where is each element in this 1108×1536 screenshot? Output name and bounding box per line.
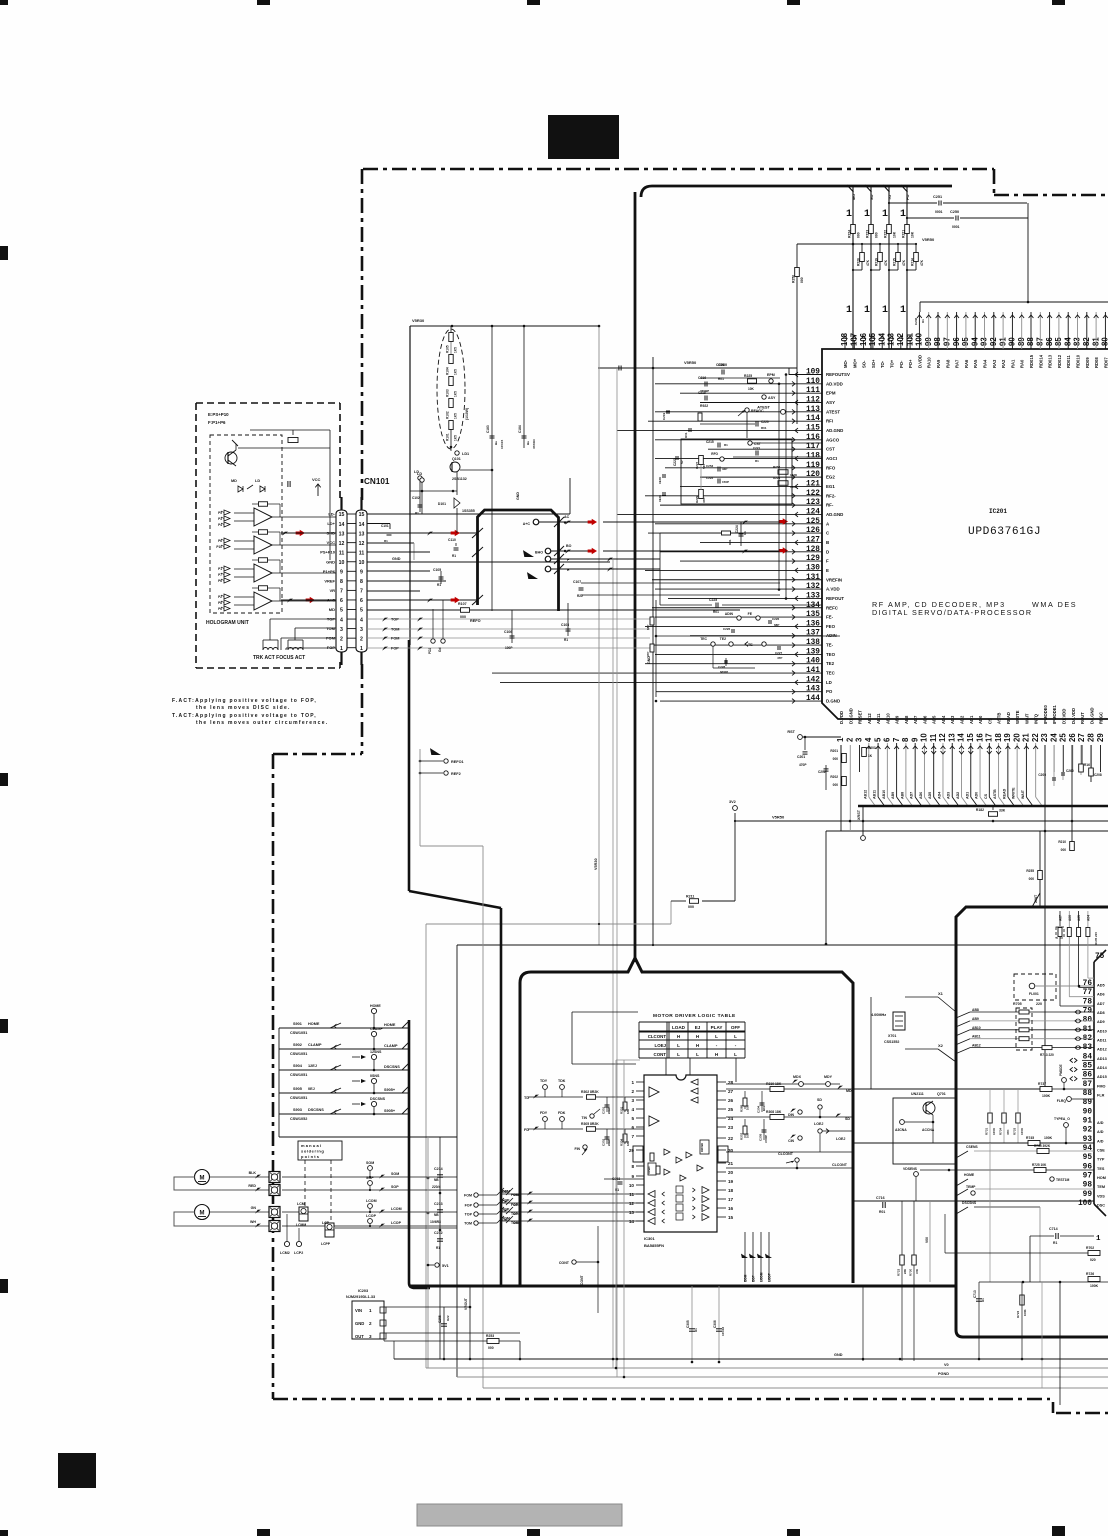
svg-text:LOAD: LOAD [672,1025,686,1030]
svg-text:the lens moves DISC side.: the lens moves DISC side. [196,705,291,711]
svg-text:R214: R214 [911,258,915,266]
svg-text:CONT: CONT [580,1274,584,1285]
svg-text:100/15: 100/15 [500,439,504,449]
svg-text:Bu: Bu [494,441,498,445]
svg-text:FL001: FL001 [1029,992,1039,996]
svg-text:13: 13 [359,531,365,537]
svg-text:9: 9 [631,1174,634,1179]
svg-text:R105 220: R105 220 [1094,932,1098,945]
svg-text:4700P: 4700P [764,1135,768,1143]
svg-text:141: 141 [806,667,820,675]
svg-text:AD.VDD: AD.VDD [826,381,843,386]
svg-text:C201: C201 [797,755,805,759]
svg-text:CSENS: CSENS [966,1145,978,1149]
svg-text:R203: R203 [868,746,876,750]
svg-text:A/D: A/D [1097,1121,1104,1125]
svg-text:AB12: AB12 [867,713,872,724]
svg-text:C716: C716 [876,1196,885,1200]
svg-text:X2: X2 [938,1043,944,1048]
svg-text:18K: 18K [626,1109,630,1114]
svg-text:10/6R3: 10/6R3 [430,1220,441,1224]
svg-text:21: 21 [728,1161,734,1166]
svg-text:1: 1 [882,305,888,316]
svg-text:D.VDD: D.VDD [839,711,844,724]
svg-text:A/D: A/D [1097,1130,1104,1134]
svg-text:TO+: TO+ [890,359,895,368]
svg-text:100K: 100K [992,1127,996,1135]
svg-text:WAIT: WAIT [1024,713,1029,724]
svg-text:78: 78 [1083,998,1093,1006]
svg-text:RD015: RD015 [1029,354,1034,368]
svg-text:CLCONT: CLCONT [832,1163,848,1167]
svg-text:RA1: RA1 [1010,359,1015,368]
svg-text:10K: 10K [746,1133,750,1138]
svg-text:LCOP: LCOP [391,1221,402,1225]
svg-text:AD4: AD4 [937,792,941,799]
svg-text:4: 4 [631,1107,634,1112]
svg-text:25: 25 [728,1107,734,1112]
svg-text:47K: 47K [884,259,888,266]
svg-text:R302 8R2K: R302 8R2K [581,1090,599,1094]
svg-text:PO: PO [826,689,833,694]
svg-text:RF-: RF- [826,503,834,508]
svg-text:AD6: AD6 [922,715,927,724]
svg-text:EOM: EOM [744,1274,748,1282]
svg-text:R255: R255 [1026,869,1034,873]
svg-text:ASY: ASY [768,396,776,400]
svg-text:MDX: MDX [793,1075,802,1079]
svg-text:AD7: AD7 [910,792,914,799]
svg-text:EG1: EG1 [826,484,835,489]
svg-text:5V1: 5V1 [442,1264,449,1268]
svg-text:HOME: HOME [384,1023,396,1027]
svg-text:READ: READ [1006,712,1011,724]
svg-text:points: points [301,1154,320,1159]
svg-text:127: 127 [806,536,820,544]
svg-text:FOP: FOP [502,1199,510,1203]
svg-text:C222: C222 [706,476,714,480]
svg-text:GN: GN [251,1206,257,1210]
svg-text:CLAMP: CLAMP [370,1027,383,1031]
svg-text:RFO: RFO [711,452,718,456]
svg-text:C260: C260 [1066,769,1074,773]
svg-text:FOP: FOP [391,647,399,651]
svg-text:119: 119 [806,462,820,470]
svg-text:TE2: TE2 [720,637,726,641]
svg-text:000: 000 [688,905,694,909]
svg-text:47P: 47P [777,656,782,660]
svg-text:GND: GND [834,1353,843,1357]
svg-text:TE-: TE- [826,643,834,648]
svg-text:R1: R1 [1053,1241,1057,1245]
svg-text:OFF: OFF [731,1025,740,1030]
svg-text:100K: 100K [1090,1284,1099,1288]
svg-text:7: 7 [340,589,343,595]
svg-text:130: 130 [806,564,820,572]
svg-text:LCOP: LCOP [366,1214,377,1218]
svg-text:LCOM: LCOM [391,1207,402,1211]
svg-text:87: 87 [1083,1081,1093,1089]
svg-text:OPEN: OPEN [647,1167,651,1174]
svg-text:F:P1+P6: F:P1+P6 [208,420,226,425]
svg-text:8: 8 [901,737,910,742]
svg-text:R202: R202 [830,775,838,779]
svg-text:MD: MD [231,479,237,483]
svg-text:AB11: AB11 [873,790,877,799]
svg-text:SO+: SO+ [871,359,876,368]
svg-text:23: 23 [728,1125,734,1130]
svg-text:HOME: HOME [370,1004,381,1008]
svg-text:R734: R734 [999,1127,1003,1135]
svg-text:V5R30: V5R30 [412,318,425,323]
svg-text:12EJ: 12EJ [308,1064,317,1068]
svg-text:GND: GND [516,492,520,500]
svg-text:CSE: CSE [1097,1149,1105,1153]
svg-text:E:PS+P10: E:PS+P10 [208,412,229,417]
svg-text:EOP: EOP [752,1274,756,1282]
svg-text:V5R50: V5R50 [922,237,935,242]
svg-text:R705: R705 [1013,1002,1022,1006]
svg-text:000: 000 [800,277,804,283]
svg-text:116: 116 [806,434,820,442]
svg-text:R308 18K: R308 18K [766,1110,782,1114]
svg-text:134: 134 [806,602,820,610]
svg-text:19: 19 [1003,733,1012,742]
svg-text:AC: AC [564,515,570,519]
svg-text:AD7: AD7 [1097,1002,1105,1006]
svg-text:2: 2 [369,1321,372,1326]
svg-text:AB12: AB12 [863,790,867,799]
svg-text:SOP: SOP [391,1185,399,1189]
svg-text:V5R30: V5R30 [594,858,598,870]
svg-text:ATEST: ATEST [826,409,840,414]
svg-text:A05: A05 [1077,915,1081,921]
svg-text:DA.VDD: DA.VDD [1071,708,1076,724]
svg-text:CSW1052: CSW1052 [290,1117,307,1121]
svg-text:A3CNA: A3CNA [895,1128,907,1132]
svg-text:B: B [826,540,829,545]
svg-text:R103: R103 [446,389,450,397]
svg-text:10K: 10K [748,387,755,391]
svg-text:C215: C215 [706,440,714,444]
svg-text:GND: GND [326,559,335,564]
svg-text:IC201: IC201 [989,508,1007,515]
svg-text:VCC: VCC [312,477,321,482]
svg-text:CSS1552: CSS1552 [884,1040,899,1044]
svg-text:1: 1 [1096,1235,1101,1243]
svg-text:C202: C202 [818,770,826,774]
svg-text:R16: R16 [1084,763,1090,767]
svg-text:1: 1 [340,646,343,652]
svg-text:15: 15 [728,1215,734,1220]
svg-text:26: 26 [728,1098,734,1103]
svg-text:TDY: TDY [540,1079,548,1083]
svg-text:WRITE: WRITE [1015,710,1020,724]
svg-text:T.ACT:Applying positive voltag: T.ACT:Applying positive voltage to TOP, [172,713,317,719]
svg-text:GND: GND [392,557,401,561]
svg-text:C306: C306 [713,1320,717,1328]
svg-text:C213: C213 [434,1202,443,1206]
svg-text:AB8: AB8 [900,792,904,799]
svg-text:14: 14 [359,522,365,528]
svg-text:R730: R730 [909,1268,913,1276]
svg-text:124: 124 [806,508,820,516]
svg-text:PD2: PD2 [428,648,432,654]
svg-text:R104: R104 [446,367,450,375]
svg-text:R1: R1 [564,638,568,642]
svg-text:UN2111: UN2111 [911,1092,924,1096]
svg-text:47K: 47K [915,1269,919,1274]
svg-text:CSW1051: CSW1051 [290,1073,307,1077]
svg-text:120: 120 [806,471,820,479]
svg-text:RA8: RA8 [945,359,950,368]
svg-text:BHO: BHO [535,551,543,555]
svg-text:S901: S901 [293,1022,302,1026]
svg-text:FE-: FE- [826,615,834,620]
svg-text:15: 15 [339,512,345,518]
svg-text:192K: 192K [658,494,662,502]
svg-text:C221: C221 [753,446,761,450]
svg-text:V5R50: V5R50 [772,815,785,820]
svg-text:182K: 182K [790,473,798,477]
svg-text:TRK ACT FOCUS ACT: TRK ACT FOCUS ACT [253,655,305,661]
svg-text:000: 000 [875,232,879,238]
svg-text:AB9: AB9 [895,715,900,724]
svg-text:000: 000 [1029,877,1035,881]
svg-text:FDY: FDY [540,1111,548,1115]
svg-text:11: 11 [929,733,938,742]
svg-text:18K: 18K [626,1141,630,1146]
svg-text:REF2: REF2 [451,772,461,776]
svg-text:DSCSNS: DSCSNS [962,1201,977,1205]
svg-text:D.GND: D.GND [826,699,840,704]
svg-text:142: 142 [806,676,820,684]
svg-text:5P: 5P [680,460,684,464]
svg-text:AD.GND: AD.GND [826,512,843,517]
svg-text:AD2: AD2 [960,715,965,724]
svg-text:90: 90 [1083,1108,1093,1116]
svg-text:AB8: AB8 [972,1008,979,1012]
svg-text:15: 15 [966,733,975,742]
svg-text:000: 000 [460,615,466,619]
svg-text:LOEJ: LOEJ [836,1137,845,1141]
svg-text:RD014: RD014 [1038,354,1043,368]
svg-text:the lens moves outer circumfer: the lens moves outer circumference. [196,720,328,726]
svg-text:RD08: RD08 [1094,357,1099,368]
svg-text:GND: GND [355,1321,364,1326]
svg-text:TEO: TEO [826,652,836,657]
svg-text:E: E [826,568,829,573]
svg-text:ASY: ASY [826,400,835,405]
svg-text:3: 3 [340,627,343,633]
svg-text:RA10: RA10 [927,357,932,368]
svg-text:C251: C251 [933,195,942,199]
svg-text:143: 143 [806,686,820,694]
svg-text:TO: TO [888,195,892,200]
svg-text:CSW1051: CSW1051 [290,1031,307,1035]
svg-text:TYP: TYP [1097,1158,1105,1162]
svg-text:A.VDD: A.VDD [826,587,840,592]
svg-text:1K5: 1K5 [454,413,458,419]
svg-text:20: 20 [728,1170,734,1175]
svg-text:R250: R250 [792,275,796,283]
svg-text:000: 000 [833,783,839,787]
svg-text:READ: READ [1002,788,1006,799]
svg-text:129: 129 [806,555,820,563]
svg-text:R304: R304 [620,1138,624,1146]
svg-text:91: 91 [1083,1118,1093,1126]
svg-text:A+C: A+C [523,522,531,526]
svg-text:HOME: HOME [308,1022,320,1026]
svg-text:10: 10 [359,560,365,566]
svg-text:R01: R01 [879,1210,885,1214]
svg-text:8: 8 [631,1164,634,1169]
svg-text:LCP: LCP [322,1221,330,1225]
svg-text:M: M [200,1211,205,1217]
svg-text:TES: TES [1097,1167,1105,1171]
svg-text:RESET: RESET [858,710,863,724]
svg-text:R726: R726 [1086,1272,1094,1276]
svg-text:1: 1 [846,209,852,220]
svg-text:D1.GND: D1.GND [848,708,853,724]
svg-text:AB10: AB10 [882,790,886,799]
svg-text:C183: C183 [486,425,490,433]
svg-text:FE: FE [748,612,753,616]
svg-text:R225: R225 [744,374,752,378]
svg-text:10: 10 [920,733,929,742]
svg-text:12SNS: 12SNS [370,1050,382,1054]
svg-text:(1/10W): (1/10W) [465,408,469,420]
svg-text:7: 7 [892,738,901,742]
svg-text:23K: 23K [903,1269,907,1274]
svg-text:33P: 33P [722,467,727,471]
svg-text:Q701: Q701 [937,1092,946,1096]
svg-text:AD1: AD1 [965,792,969,799]
svg-text:25: 25 [1059,733,1068,742]
svg-text:D1.VDD: D1.VDD [1061,709,1066,724]
svg-text:R305 8R2K: R305 8R2K [581,1122,599,1126]
svg-text:R201: R201 [830,749,838,753]
svg-text:R301: R301 [620,1106,624,1114]
svg-text:100K: 100K [1042,1094,1051,1098]
svg-text:470P: 470P [799,763,807,767]
svg-text:LCOP: LCOP [768,1272,772,1282]
svg-text:47K: 47K [866,259,870,266]
svg-text:126: 126 [806,527,820,535]
svg-text:R733: R733 [1013,1127,1017,1135]
svg-text:R307: R307 [740,1132,744,1140]
svg-text:114: 114 [806,415,820,423]
svg-text:S903: S903 [293,1108,302,1112]
svg-text:AD14: AD14 [1097,1066,1108,1070]
svg-text:R222: R222 [884,230,888,238]
svg-text:AB12: AB12 [972,1044,981,1048]
svg-text:TOM: TOM [502,1217,510,1221]
svg-text:R210: R210 [1058,840,1066,844]
svg-text:0001: 0001 [935,210,943,214]
svg-text:13: 13 [339,531,345,537]
svg-text:REFOUT: REFOUT [826,596,844,601]
svg-text:AB11: AB11 [972,1035,981,1039]
svg-text:000: 000 [488,1346,494,1350]
svg-text:R1: R1 [415,511,419,515]
svg-text:V0: V0 [944,1363,949,1367]
svg-text:FOM: FOM [464,1194,472,1198]
svg-text:118: 118 [806,452,820,460]
svg-text:BLK: BLK [249,1171,257,1175]
svg-text:97: 97 [1083,1173,1093,1181]
svg-text:RA0: RA0 [1020,359,1025,368]
svg-text:AB11: AB11 [876,713,881,724]
svg-text:12: 12 [359,541,365,547]
svg-text:OUT: OUT [355,1334,364,1339]
svg-text:FIN: FIN [575,1147,581,1151]
svg-text:FLR: FLR [1097,1094,1105,1098]
svg-text:AD5: AD5 [1097,984,1105,988]
svg-text:182K: 182K [790,485,798,489]
svg-text:R01: R01 [684,432,688,438]
svg-text:HOM: HOM [1097,1176,1106,1180]
svg-text:AD8: AD8 [1097,1011,1105,1015]
svg-text:110: 110 [806,378,820,386]
svg-text:1: 1 [864,209,870,220]
svg-text:47K: 47K [902,259,906,266]
svg-text:10: 10 [339,560,345,566]
svg-text:AD6: AD6 [919,792,923,799]
svg-text:16: 16 [728,1206,734,1211]
svg-text:AB10: AB10 [885,713,890,724]
svg-text:000: 000 [857,232,861,238]
svg-text:R1: R1 [694,1328,698,1332]
svg-text:27: 27 [1077,733,1086,742]
svg-text:21: 21 [1022,733,1031,742]
svg-text:C205: C205 [1038,773,1046,777]
svg-text:RD09: RD09 [1085,357,1090,368]
svg-text:C301: C301 [602,1106,606,1114]
svg-text:R1: R1 [452,554,456,558]
svg-text:136: 136 [806,620,820,628]
svg-text:L: L [696,1052,699,1057]
svg-text:C250: C250 [950,210,959,214]
svg-text:IC301: IC301 [644,1236,655,1241]
svg-text:C184: C184 [518,425,522,433]
svg-text:C214: C214 [434,1167,443,1171]
svg-text:FOM: FOM [502,1190,510,1194]
svg-text:CN101: CN101 [364,477,390,486]
svg-text:132: 132 [806,583,820,591]
svg-text:RFAGC: RFAGC [751,409,764,413]
svg-text:5: 5 [340,608,343,614]
svg-text:AD1: AD1 [969,715,974,724]
svg-text:ASTB: ASTB [997,713,1002,724]
svg-text:D: D [826,549,829,554]
svg-text:29: 29 [629,1148,635,1153]
svg-text:HOLOGRAM UNIT: HOLOGRAM UNIT [206,620,249,626]
svg-text:3: 3 [855,737,864,742]
svg-text:RA2: RA2 [1001,359,1006,368]
svg-text:220: 220 [1036,1002,1042,1006]
svg-text:MOTOR DRIVER LOGIC TABLE: MOTOR DRIVER LOGIC TABLE [653,1013,736,1019]
svg-text:A04: A04 [1086,915,1090,921]
svg-text:FOP: FOP [465,1204,473,1208]
svg-text:AD3: AD3 [950,715,955,724]
svg-text:113: 113 [806,406,820,414]
svg-text:CLAMP: CLAMP [384,1044,398,1048]
svg-text:R735 392K: R735 392K [1034,1144,1051,1148]
svg-text:S905: S905 [293,1087,302,1091]
svg-text:C107: C107 [573,580,581,584]
svg-text:MD: MD [846,1089,852,1093]
